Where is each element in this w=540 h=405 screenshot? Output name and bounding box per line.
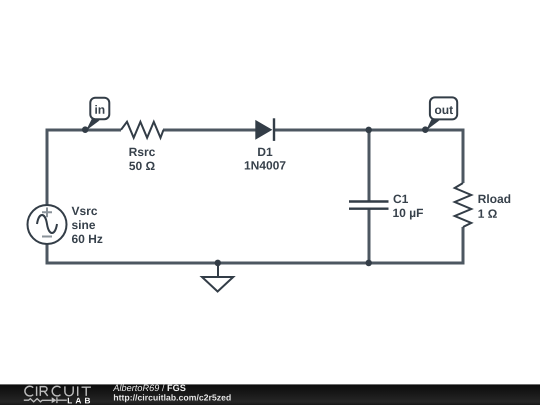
wire: left vertical + top-left segment from corner to Rsrc xyxy=(47,130,121,205)
node in: callout bubble xyxy=(90,98,109,120)
wire: C1 bottom branch xyxy=(368,209,371,263)
footer credit line xyxy=(113,384,186,391)
label Rsrc value xyxy=(129,148,155,170)
wire: D1 cathode to top-right corner down to Rload top xyxy=(274,130,463,183)
wire: Rsrc to D1 anode xyxy=(163,129,256,132)
capacitor C1 xyxy=(349,202,389,209)
resistor Rload xyxy=(455,183,472,227)
Vsrc plus sign xyxy=(42,208,52,218)
label C1 value xyxy=(393,195,423,220)
node in: label text xyxy=(95,105,104,114)
diode D1 xyxy=(255,118,275,141)
resistor Rsrc xyxy=(121,122,163,138)
ground xyxy=(202,263,233,292)
voltage source Vsrc xyxy=(28,205,67,244)
label Vsrc value xyxy=(72,207,103,243)
junction: C1 top node xyxy=(365,127,372,134)
wire: C1 top branch xyxy=(368,130,371,201)
node out: label text xyxy=(435,106,453,114)
junction: C1 bottom node xyxy=(365,260,372,267)
junction: ground node xyxy=(215,260,222,267)
wire: Vsrc bottom to bottom-left corner along bottom to bottom-right corner xyxy=(47,227,463,263)
node out: callout tail xyxy=(426,118,439,131)
label Rload value xyxy=(478,194,510,218)
label D1 value xyxy=(245,148,286,170)
logo CIRCUIT outline text xyxy=(25,386,91,396)
node out: junction dot xyxy=(422,126,429,133)
logo diode triangle xyxy=(52,397,57,403)
node in: junction dot xyxy=(82,126,89,133)
logo wire-resistor-diode art xyxy=(24,397,67,403)
logo LAB text xyxy=(68,398,90,404)
Vsrc minus sign xyxy=(42,236,52,238)
footer url line xyxy=(114,394,231,402)
node out: callout bubble xyxy=(430,97,457,119)
footer bar xyxy=(0,384,540,405)
node in: callout tail xyxy=(86,118,100,131)
